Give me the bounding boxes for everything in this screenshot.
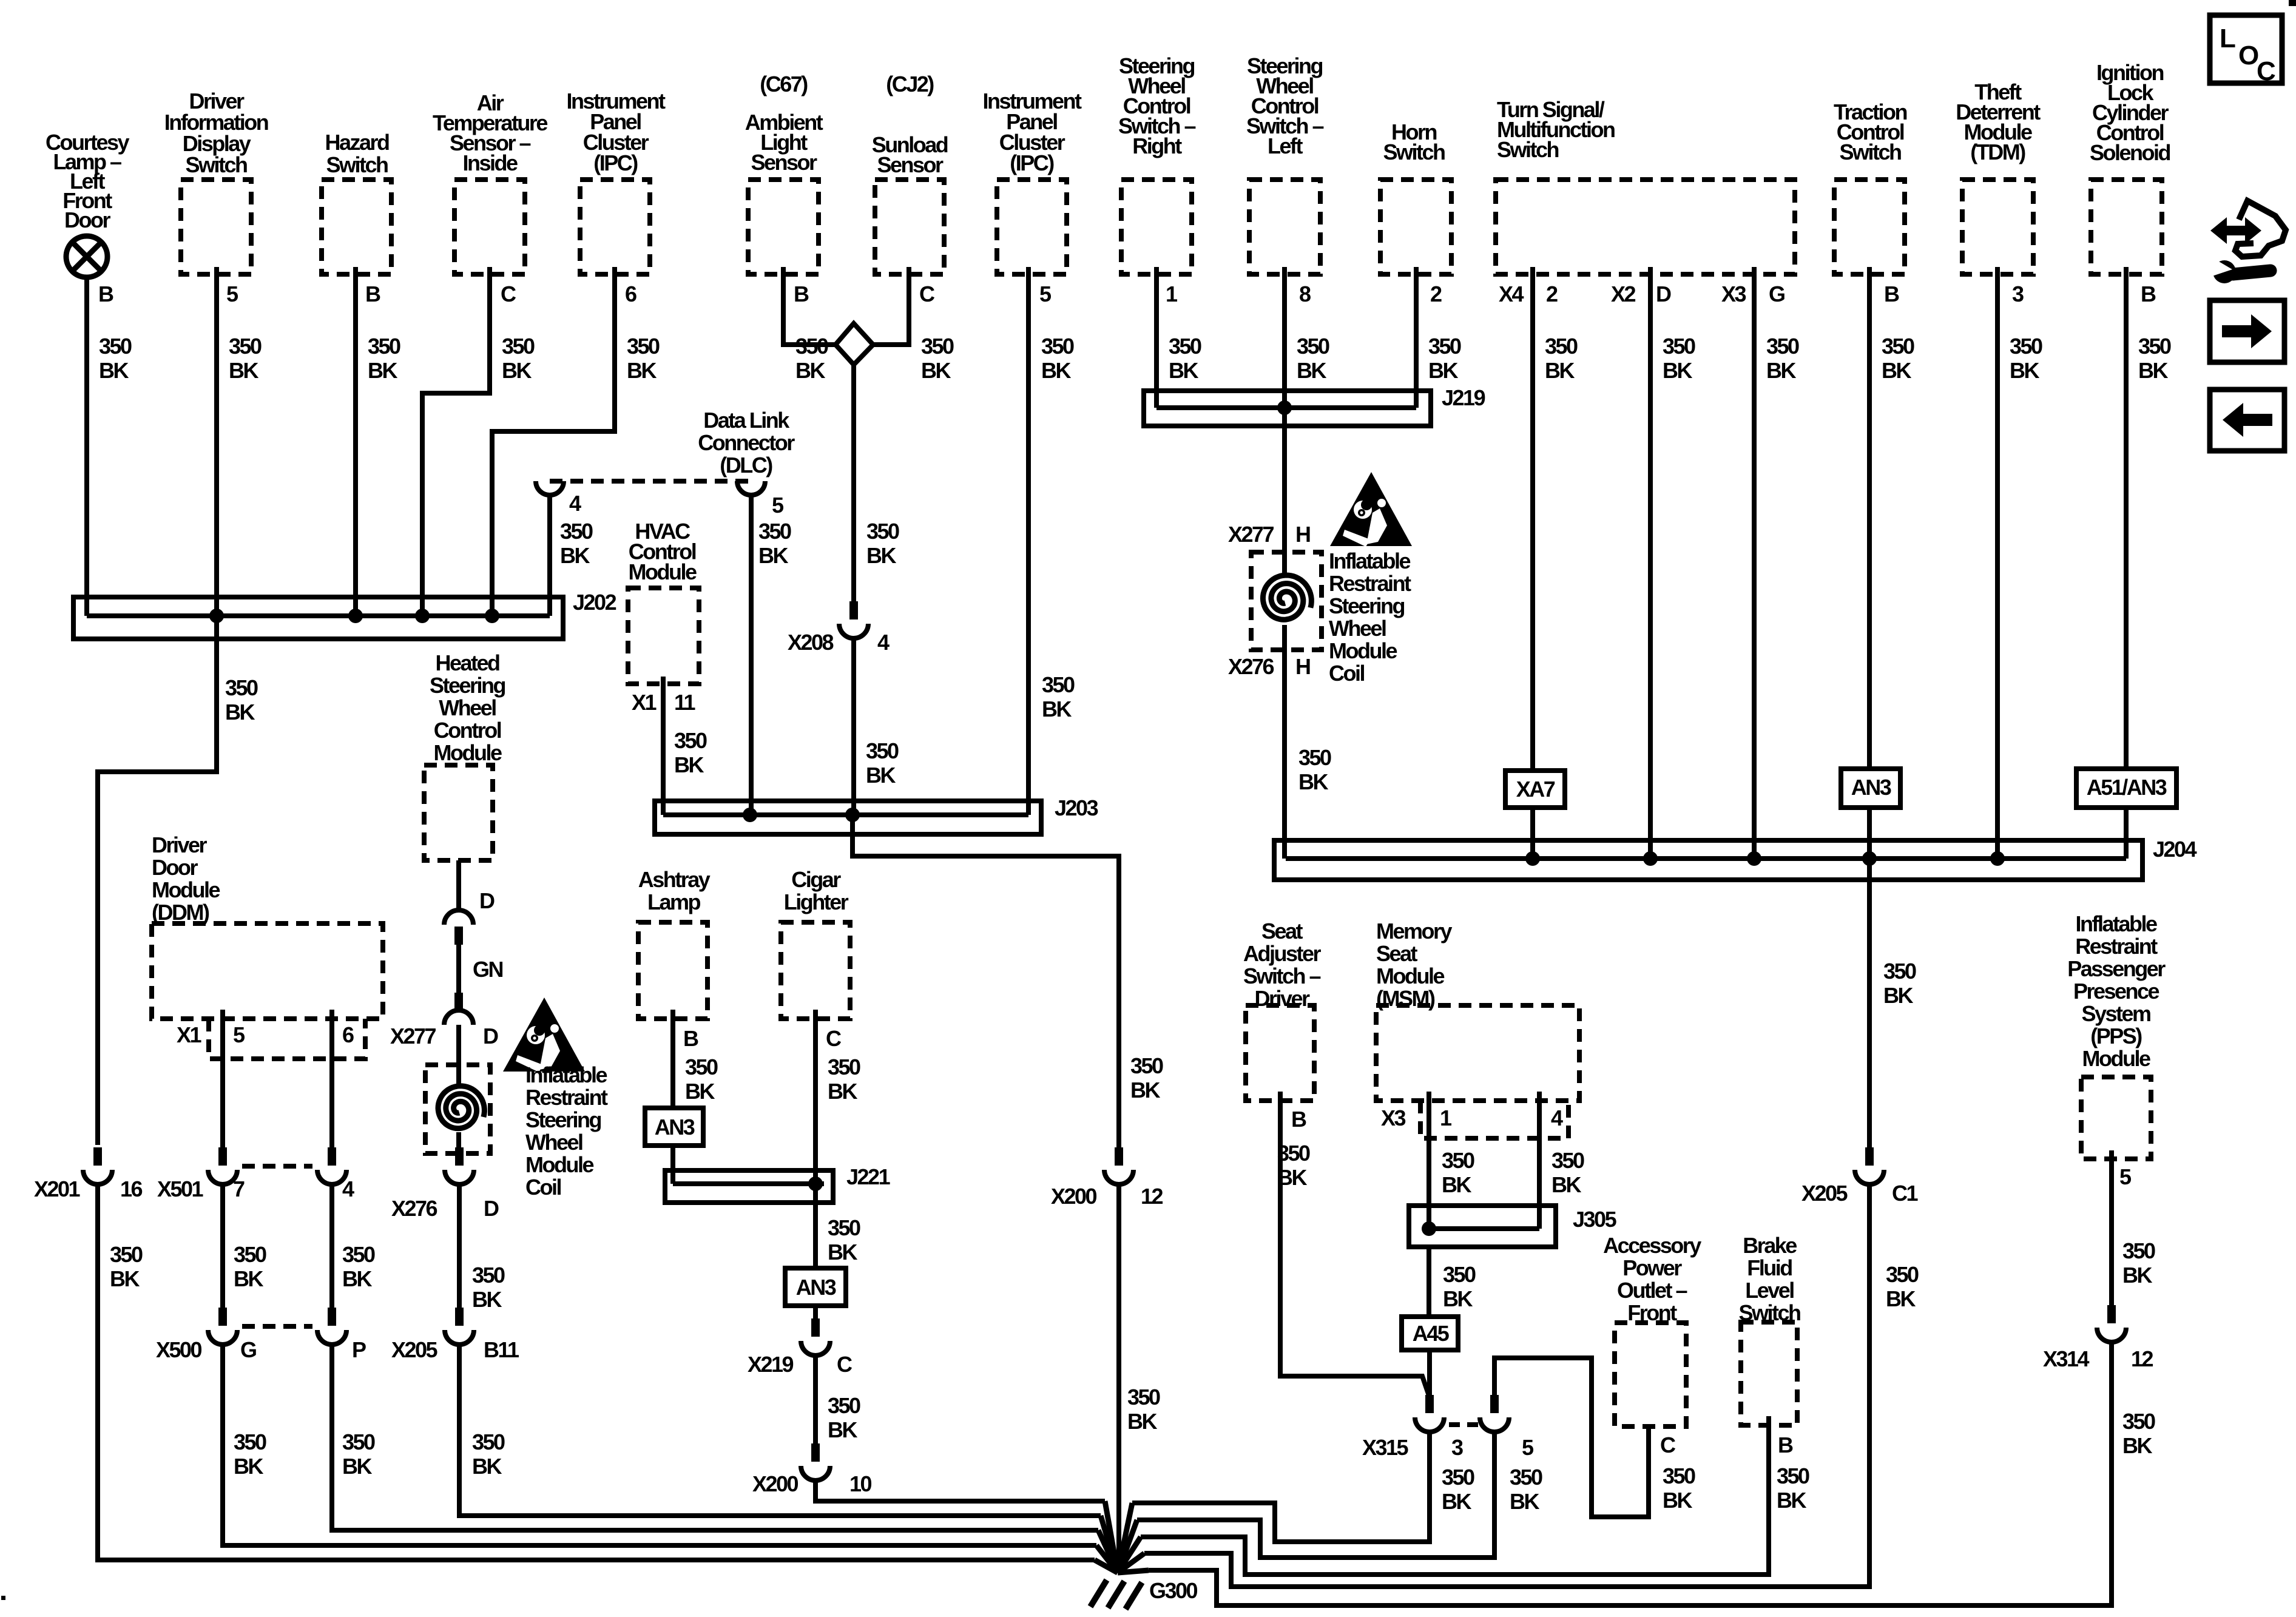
wire horn switch 2 to J219 — [1416, 267, 1461, 408]
svg-text:BK: BK — [795, 358, 825, 383]
svg-text:Restraint: Restraint — [2075, 934, 2158, 959]
svg-text:Restraint: Restraint — [525, 1085, 608, 1110]
splice dot J221 cigar — [808, 1176, 823, 1191]
wire X315-5 to G300 — [1137, 1432, 1542, 1558]
wire X500-P to G300 — [332, 1345, 1098, 1530]
svg-text:BK: BK — [758, 543, 788, 568]
splice dot J219 SWCS left — [1277, 400, 1292, 415]
inline connector X500 pin P — [242, 1308, 366, 1362]
svg-text:BK: BK — [2122, 1433, 2152, 1458]
DLC pin 4 cup — [536, 481, 581, 516]
wire J221 to AN3 lower — [815, 1184, 860, 1268]
svg-text:X277: X277 — [1228, 522, 1274, 547]
svg-text:A51/AN3: A51/AN3 — [2087, 775, 2167, 800]
component HVAC Control Module — [628, 519, 699, 684]
svg-text:350: 350 — [1883, 959, 1916, 984]
splice dot J202 hazard — [348, 609, 363, 623]
svg-text:Coil: Coil — [525, 1175, 561, 1200]
svg-text:350: 350 — [1663, 334, 1695, 359]
svg-text:Lighter: Lighter — [784, 890, 849, 914]
svg-text:BK: BK — [229, 358, 258, 383]
svg-text:C: C — [501, 282, 516, 306]
svg-text:Door: Door — [152, 855, 198, 880]
svg-text:12: 12 — [2131, 1346, 2153, 1371]
wire AN3 lower to X219 — [813, 1306, 818, 1322]
svg-text:J202: J202 — [573, 590, 616, 615]
svg-text:350: 350 — [866, 519, 899, 544]
svg-text:10: 10 — [849, 1471, 872, 1496]
svg-text:350: 350 — [234, 1430, 266, 1454]
svg-text:Module: Module — [1376, 964, 1444, 988]
svg-text:X4: X4 — [1499, 282, 1524, 306]
pin B of ignition lock solenoid — [2141, 282, 2156, 306]
svg-text:B: B — [1291, 1107, 1306, 1132]
svg-text:5: 5 — [772, 493, 784, 518]
svg-text:BK: BK — [1169, 358, 1198, 383]
svg-text:BK: BK — [1042, 697, 1072, 721]
svg-text:350: 350 — [2010, 334, 2042, 359]
svg-text:Module: Module — [2082, 1046, 2150, 1071]
svg-text:P: P — [352, 1337, 366, 1362]
component Ignition Lock Cylinder Control Solenoid — [2090, 60, 2170, 274]
svg-text:BK: BK — [1443, 1286, 1473, 1311]
svg-text:Cigar: Cigar — [791, 867, 841, 892]
svg-text:Seat: Seat — [1376, 941, 1418, 966]
svg-text:AN3: AN3 — [796, 1275, 836, 1300]
svg-text:350: 350 — [1277, 1141, 1310, 1166]
svg-text:L: L — [2220, 24, 2235, 53]
wire X314-12 to G300 — [1149, 1342, 2155, 1605]
svg-text:5: 5 — [233, 1022, 245, 1047]
net box A45 — [1402, 1317, 1458, 1350]
svg-text:BK: BK — [685, 1079, 715, 1104]
svg-text:350: 350 — [229, 334, 262, 359]
svg-text:350: 350 — [828, 1215, 860, 1240]
wire multifunction X4-2 to XA7 — [1533, 267, 1578, 771]
component Theft Deterrent Module TDM — [1956, 79, 2041, 274]
wire DIDS pin 5 to J202 — [217, 267, 262, 639]
svg-text:Ashtray: Ashtray — [638, 867, 711, 892]
svg-text:BK: BK — [2138, 358, 2168, 383]
wire brake fluid level B to G300 — [1141, 1416, 1809, 1575]
component Horn Switch — [1380, 120, 1451, 274]
svg-text:4: 4 — [569, 491, 581, 516]
svg-text:350: 350 — [110, 1242, 143, 1267]
svg-text:X205: X205 — [391, 1337, 438, 1362]
pin 5 of DDM — [233, 1022, 245, 1047]
svg-text:Switch: Switch — [1839, 140, 1901, 164]
wire APO C to X315-5 — [1494, 1358, 1649, 1517]
svg-text:BK: BK — [1510, 1489, 1539, 1514]
svg-text:Adjuster: Adjuster — [1243, 941, 1322, 966]
svg-text:X208: X208 — [788, 630, 834, 655]
svg-text:G: G — [240, 1337, 256, 1362]
svg-text:Inside: Inside — [462, 150, 518, 175]
svg-text:(TDM): (TDM) — [1970, 140, 2025, 164]
net box A51/AN3 — [2076, 769, 2176, 808]
wire X208 to J203 — [854, 638, 899, 815]
svg-text:Sensor: Sensor — [751, 150, 817, 175]
wire X200-12 to G300 — [1119, 1184, 1160, 1571]
wire ignition lock B to A51/AN3 — [2126, 267, 2171, 769]
wire X315-3 to G300 — [1132, 1432, 1474, 1542]
inline connector X314 pin 12 — [2043, 1305, 2153, 1371]
svg-text:BK: BK — [1298, 769, 1328, 794]
svg-text:GN: GN — [473, 957, 503, 982]
svg-text:350: 350 — [560, 519, 593, 544]
legend box LOC — [2210, 15, 2282, 86]
splice dot J204 AN3 — [1862, 851, 1877, 866]
svg-text:B: B — [794, 282, 809, 306]
svg-text:BK: BK — [225, 700, 255, 724]
svg-text:BK: BK — [1297, 358, 1326, 383]
corner mark bottom left — [1, 1596, 5, 1600]
svg-text:C1: C1 — [1892, 1181, 1918, 1206]
component Accessory Power Outlet - Front — [1603, 1233, 1701, 1426]
connector X3 of MSM dashed staple — [1381, 1101, 1568, 1138]
svg-text:BK: BK — [828, 1240, 857, 1264]
svg-text:Switch: Switch — [1383, 140, 1445, 164]
inline connector X201 pin 16 — [34, 1147, 143, 1201]
svg-text:BK: BK — [99, 358, 129, 383]
svg-text:350: 350 — [627, 334, 660, 359]
svg-text:350: 350 — [866, 738, 899, 763]
net box XA7 — [1505, 771, 1565, 808]
pin B of hazard switch — [365, 282, 380, 306]
svg-text:3: 3 — [2012, 282, 2024, 306]
svg-text:Steering: Steering — [525, 1107, 601, 1132]
svg-text:X200: X200 — [752, 1471, 799, 1496]
svg-text:350: 350 — [1428, 334, 1461, 359]
svg-text:16: 16 — [120, 1176, 143, 1201]
warning triangle airbag right — [1330, 472, 1412, 547]
inline connector D upper of HSWCM — [444, 888, 495, 945]
ground label G300 — [1149, 1578, 1198, 1603]
pin B of ashtray lamp — [683, 1026, 698, 1051]
wire SWCS-left chain J219 to coil — [1282, 408, 1287, 575]
svg-text:350: 350 — [795, 334, 828, 359]
svg-text:350: 350 — [472, 1430, 505, 1454]
svg-text:C: C — [837, 1352, 853, 1377]
wire X219-C to X200-10 — [815, 1355, 860, 1451]
wire X277-D to coil box left — [456, 1025, 461, 1086]
svg-text:7: 7 — [233, 1176, 245, 1201]
svg-text:Hazard: Hazard — [325, 130, 389, 155]
svg-text:B: B — [1778, 1433, 1793, 1457]
pin 1 of SWCS right — [1166, 282, 1178, 306]
svg-text:2: 2 — [1546, 282, 1558, 306]
svg-text:BK: BK — [828, 1079, 857, 1104]
inline connector X219 pin C — [748, 1318, 853, 1377]
svg-text:5: 5 — [226, 282, 238, 306]
component Inflatable Restraint Steering Wheel Module Coil left — [425, 1062, 608, 1200]
svg-text:B: B — [2141, 282, 2156, 306]
component Brake Fluid Level Switch — [1738, 1233, 1800, 1425]
svg-text:8: 8 — [1299, 282, 1311, 306]
lamp label Courtesy Lamp - Left Front Door — [46, 130, 130, 232]
svg-text:H: H — [1295, 522, 1310, 547]
svg-text:(C67): (C67) — [760, 72, 808, 96]
svg-text:D: D — [479, 888, 495, 913]
pin B of courtesy lamp — [98, 282, 113, 306]
svg-text:D: D — [483, 1024, 498, 1048]
wire DLC pin 5 to J203 — [751, 495, 791, 815]
svg-text:350: 350 — [1663, 1463, 1695, 1488]
junction block J219 — [1144, 385, 1485, 426]
svg-text:5: 5 — [1039, 282, 1052, 306]
svg-text:350: 350 — [828, 1393, 860, 1418]
svg-text:BK: BK — [502, 358, 532, 383]
pin 8 of SWCS left — [1299, 282, 1311, 306]
component Cigar Lighter — [781, 867, 850, 1019]
pin X1-11 of HVAC control module — [632, 690, 696, 715]
wire J203 to X200-12 — [853, 815, 1163, 1155]
svg-text:X277: X277 — [390, 1024, 436, 1048]
svg-text:6: 6 — [342, 1022, 354, 1047]
wire J202 to X201 and DDM area — [98, 639, 258, 1145]
inline connector X277 pin D — [390, 993, 498, 1048]
inline connector X315 pin 3 — [1362, 1395, 1463, 1460]
svg-text:Presence: Presence — [2073, 979, 2159, 1004]
wire J204 to X205-C1 traction chain — [1869, 859, 1916, 1154]
svg-text:X201: X201 — [34, 1176, 81, 1201]
component Traction Control Switch — [1834, 100, 1907, 274]
svg-text:350: 350 — [921, 334, 954, 359]
svg-text:Inflatable: Inflatable — [525, 1062, 607, 1087]
svg-text:BK: BK — [828, 1417, 857, 1442]
wire A51/AN3 to J204 — [2124, 808, 2129, 859]
junction block J203 — [655, 795, 1098, 834]
component Steering Wheel Control Switch - Left — [1246, 53, 1324, 274]
component Hazard Switch — [322, 130, 391, 274]
svg-text:(CJ2): (CJ2) — [886, 72, 934, 96]
svg-text:5: 5 — [2119, 1164, 2132, 1189]
svg-text:(DDM): (DDM) — [152, 900, 209, 925]
svg-text:350: 350 — [502, 334, 535, 359]
label X277 pin H — [1228, 522, 1310, 547]
svg-text:Switch: Switch — [326, 152, 388, 177]
svg-text:BK: BK — [2122, 1263, 2152, 1288]
wire DLC pin 4 to J202 — [550, 495, 593, 616]
svg-text:BK: BK — [560, 543, 590, 568]
svg-text:BK: BK — [1663, 1488, 1692, 1513]
svg-text:Steering: Steering — [1329, 593, 1405, 618]
net box AN3 ashtray — [645, 1108, 703, 1146]
pin X4-2 of multifunction switch — [1499, 282, 1558, 306]
wire TDM 3 to J204 — [1997, 267, 2042, 859]
pin B of seat adjuster switch — [1291, 1107, 1306, 1132]
svg-text:(IPC): (IPC) — [1010, 150, 1054, 175]
svg-text:Module: Module — [525, 1152, 593, 1177]
svg-text:BK: BK — [921, 358, 951, 383]
svg-text:G: G — [1769, 282, 1784, 306]
wire SWCS left pin 8 to J219 — [1285, 267, 1329, 408]
svg-text:H: H — [1295, 654, 1310, 679]
wire AN3 to J204 — [1867, 808, 1872, 859]
wire coil left to X276 — [456, 1132, 461, 1156]
component Inflatable Restraint Passenger Presence System PPS Module — [2067, 911, 2166, 1159]
svg-text:6: 6 — [625, 282, 636, 306]
wire DDM pin 6 to X501-4 — [332, 1010, 375, 1291]
svg-text:Sensor: Sensor — [877, 152, 944, 177]
svg-text:Brake: Brake — [1743, 1233, 1797, 1258]
wire ashtray lamp B to AN3 — [673, 1010, 718, 1108]
wire DDM pin 5 to X501-7 — [223, 1010, 266, 1291]
svg-text:Wheel: Wheel — [525, 1130, 582, 1155]
svg-text:Passenger: Passenger — [2067, 956, 2166, 981]
svg-text:J221: J221 — [846, 1164, 891, 1189]
svg-text:Accessory: Accessory — [1603, 1233, 1701, 1258]
wire traction control B to AN3 — [1869, 267, 1914, 769]
svg-text:4: 4 — [877, 630, 890, 655]
pin C of air temperature sensor — [501, 282, 516, 306]
svg-text:X276: X276 — [1228, 654, 1274, 679]
svg-text:BK: BK — [674, 752, 704, 777]
svg-text:Left: Left — [1268, 133, 1303, 158]
svg-text:Switch: Switch — [185, 152, 247, 177]
svg-text:Module: Module — [434, 740, 502, 765]
wire X501-7 to X500-G — [223, 1184, 266, 1479]
wire X200-10 to G300 — [815, 1480, 1105, 1501]
wire sunload sensor C to splice diamond — [870, 267, 954, 383]
svg-text:BK: BK — [866, 763, 896, 788]
svg-text:C: C — [919, 282, 935, 306]
pin 3 of TDM — [2012, 282, 2024, 306]
component Heated Steering Wheel Control Module — [424, 650, 505, 860]
svg-text:BK: BK — [1883, 983, 1913, 1008]
svg-text:BK: BK — [1041, 358, 1071, 383]
pin 5 of DIDS — [226, 282, 238, 306]
svg-text:350: 350 — [1041, 334, 1074, 359]
wire PPS 5 to X314 — [2112, 1150, 2155, 1312]
wire ambient light sensor B to splice diamond — [783, 267, 838, 383]
ground symbol G300 — [1090, 1580, 1142, 1609]
inline connector X501 pin 4 — [242, 1147, 354, 1201]
svg-text:350: 350 — [1882, 334, 1914, 359]
component Steering Wheel Control Switch - Right — [1118, 53, 1196, 274]
svg-text:BK: BK — [1127, 1409, 1157, 1434]
svg-text:350: 350 — [758, 519, 791, 544]
svg-text:350: 350 — [1130, 1053, 1163, 1078]
svg-text:BK: BK — [1442, 1489, 1471, 1514]
inline connector X500 pin G — [156, 1308, 256, 1362]
svg-text:Switch: Switch — [1497, 137, 1559, 162]
pin 4 of MSM — [1551, 1106, 1563, 1130]
svg-text:C: C — [826, 1026, 842, 1051]
component Driver Door Module DDM — [152, 832, 383, 1019]
svg-text:Fluid: Fluid — [1747, 1255, 1792, 1280]
svg-text:J203: J203 — [1055, 795, 1098, 820]
wire AN3 ashtray to J221 — [670, 1146, 675, 1184]
svg-text:Inflatable: Inflatable — [1329, 549, 1411, 573]
icon double arrow with wrench — [2210, 201, 2286, 283]
svg-text:BK: BK — [472, 1454, 502, 1479]
svg-text:B: B — [98, 282, 113, 306]
label Data Link Connector DLC — [698, 408, 795, 478]
svg-text:X314: X314 — [2043, 1346, 2090, 1371]
inline connector X205 pin B11 — [391, 1308, 519, 1362]
pin 6 of DDM — [342, 1022, 354, 1047]
splice dot J204 XA7 — [1525, 851, 1540, 866]
svg-text:X3: X3 — [1721, 282, 1746, 306]
svg-text:1: 1 — [1440, 1106, 1452, 1130]
wire seat adjuster B to X315-3 — [1277, 1092, 1429, 1396]
svg-text:350: 350 — [234, 1242, 266, 1267]
svg-text:X315: X315 — [1362, 1435, 1409, 1460]
svg-text:350: 350 — [1127, 1385, 1160, 1409]
DLC pin 5 cup — [737, 481, 784, 518]
svg-text:BK: BK — [234, 1454, 263, 1479]
svg-text:BK: BK — [342, 1266, 372, 1291]
svg-text:(DLC): (DLC) — [720, 453, 772, 478]
pin B of brake fluid level switch — [1778, 1433, 1793, 1457]
svg-text:350: 350 — [2122, 1409, 2155, 1434]
svg-text:3: 3 — [1451, 1435, 1463, 1460]
pin 1 of MSM — [1440, 1106, 1452, 1130]
svg-text:350: 350 — [368, 334, 400, 359]
svg-text:350: 350 — [225, 675, 258, 700]
inline connector X200 pin 10 — [752, 1443, 872, 1496]
splice dot J202 air temp — [415, 609, 430, 623]
component C67 Ambient Light Sensor — [745, 72, 823, 274]
junction block J305 — [1409, 1206, 1617, 1247]
wire MSM pin 4 to J305 — [1539, 1092, 1584, 1229]
svg-text:350: 350 — [2138, 334, 2171, 359]
wire cigar lighter C to J221 — [815, 1010, 860, 1184]
svg-text:350: 350 — [342, 1430, 375, 1454]
component Memory Seat Module MSM — [1376, 919, 1579, 1101]
svg-text:1: 1 — [1166, 282, 1178, 306]
svg-text:X2: X2 — [1611, 282, 1636, 306]
svg-text:350: 350 — [1886, 1262, 1919, 1287]
wire multifunction X3-G to J204 — [1754, 267, 1799, 859]
wire X500-G to G300 — [223, 1345, 1096, 1545]
pin 5 of IPC right — [1039, 282, 1052, 306]
svg-text:350: 350 — [1443, 1262, 1476, 1287]
inline connector X200 pin 12 — [1051, 1147, 1163, 1209]
wire GN segment — [459, 945, 503, 993]
component Ashtray Lamp — [638, 867, 711, 1019]
svg-text:4: 4 — [342, 1176, 354, 1201]
svg-text:XA7: XA7 — [1516, 777, 1555, 802]
svg-text:Coil: Coil — [1329, 661, 1364, 686]
wire MSM pin 1 to J305 — [1429, 1092, 1474, 1229]
svg-text:350: 350 — [685, 1055, 718, 1079]
pin X3-G of multifunction switch — [1721, 282, 1784, 306]
icon box arrow left — [2210, 390, 2284, 451]
component Turn Signal Multifunction Switch — [1496, 97, 1795, 274]
svg-text:BK: BK — [866, 543, 896, 568]
inline connector X208 pin 4 — [788, 601, 890, 655]
svg-text:Wheel: Wheel — [1329, 616, 1386, 641]
svg-text:Front: Front — [1627, 1300, 1677, 1325]
svg-text:5: 5 — [1522, 1435, 1534, 1460]
warning triangle airbag left — [503, 998, 585, 1072]
svg-text:Driver: Driver — [152, 832, 208, 857]
svg-text:Module: Module — [152, 877, 220, 902]
wire J305 to A45 — [1429, 1247, 1476, 1317]
svg-text:O: O — [2238, 41, 2258, 70]
pin C of accessory power outlet — [1660, 1433, 1695, 1513]
courtesy lamp E1 left front door — [66, 236, 107, 277]
svg-text:(PPS): (PPS) — [2090, 1024, 2142, 1048]
splice dot J202 DIDS — [209, 609, 224, 623]
wire HSWCM to connector D upper — [456, 860, 461, 910]
svg-text:B: B — [365, 282, 380, 306]
svg-text:350: 350 — [1766, 334, 1799, 359]
component Seat Adjuster Switch - Driver — [1243, 919, 1322, 1101]
wire SWCS right pin 1 to J219 — [1156, 267, 1201, 408]
